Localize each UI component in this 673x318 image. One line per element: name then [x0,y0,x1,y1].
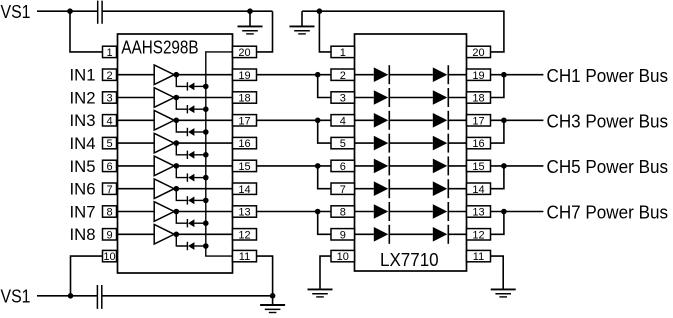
wire C2 to bottom ground node [102,295,272,297]
buffer amplifier ch3 (U1) [154,111,174,131]
pin 5 (U1) [103,137,117,150]
svg-text:3: 3 [106,93,112,105]
svg-text:4: 4 [106,115,112,127]
svg-text:IN8: IN8 [70,225,96,244]
svg-text:14: 14 [238,184,250,196]
pin 19 (U1) [233,69,257,82]
pin 17 (U2) [467,115,491,128]
wire branch down to U2 pin 5 [318,120,331,143]
junction buffer ch5 output [174,163,180,169]
ground (bottom left) [260,296,285,313]
wire buffer ch8 output to pin 12 [176,233,232,235]
wire U2 pin 2 to diode pair ch1 [355,74,374,76]
wire between diodes ch8 [389,233,433,235]
pin 4 (U2) [331,115,355,128]
wire buffer ch7 output down to clamp diode [176,212,187,224]
svg-text:2: 2 [340,70,346,82]
wire pin 7 to buffer ch6 input [118,188,155,190]
junction C1 / ground / pin 20 node [247,8,253,14]
junction buffer ch4 output [174,140,180,146]
diode D5B (U2, anode left) [433,156,449,175]
junction node U2 pins 8/9 [315,209,321,215]
wire diode ch5 anode to bus [194,177,205,179]
junction node U2 pins 4/5 [315,118,321,124]
svg-text:8: 8 [106,207,112,219]
diode D7B (U2, anode left) [433,202,449,221]
wire diode pair ch3 to pin 17 [448,119,466,121]
svg-text:2: 2 [106,70,112,82]
ground (U2 pin 10) [308,289,333,297]
svg-text:IN2: IN2 [70,88,96,107]
buffer amplifier ch5 (U1) [154,156,174,176]
wire U2 pin 3 to diode pair ch2 [355,97,374,99]
svg-text:IN6: IN6 [70,180,96,199]
wire U2 pin 8 to diode pair ch7 [355,211,374,213]
diode D4A (U2, anode left) [374,134,390,153]
svg-text:5: 5 [340,138,346,150]
svg-text:IN4: IN4 [70,134,96,153]
wire U2 pin 11 to ground [491,256,504,289]
svg-text:20: 20 [472,47,484,59]
wire between diodes ch5 [389,165,433,167]
capacitor C1 [98,1,102,24]
svg-text:16: 16 [472,138,484,150]
clamp diode ch8 (cathode left) [187,242,194,250]
wire U2 pin 17 to CH3 power bus [491,119,544,121]
wire buffer ch5 output to pin 15 [176,165,232,167]
wire U1 pin 15 to U2 pin 6 [257,165,332,167]
wire ground node up to pin 11 of U1 [257,256,273,296]
junction buffer ch3 output [174,118,180,124]
svg-text:9: 9 [106,229,112,241]
wire U1 pin 17 to U2 pin 4 [257,119,332,121]
svg-text:IN1: IN1 [70,66,96,85]
junction buffer ch8 output [174,232,180,238]
wire buffer ch8 output down to clamp diode [176,234,187,246]
pin 14 (U1) [233,183,257,196]
wire buffer ch3 output to pin 17 [176,119,232,121]
pin 1 (U2) [331,46,355,59]
wire between diodes ch1 [389,74,433,76]
svg-text:VS1: VS1 [1,286,31,307]
junction VS1 bottom rail / pin 10 tap [68,293,74,299]
svg-text:8: 8 [340,207,346,219]
wire diode ch7 anode to bus [194,222,205,224]
pin 19 (U2) [467,69,491,82]
wire buffer ch2 output down to clamp diode [176,98,187,110]
wire buffer ch3 output down to clamp diode [176,120,187,132]
pin 12 (U1) [233,229,257,242]
wire U2 pin 19 to CH1 power bus [491,74,544,76]
clamp diode ch1 (cathode left) [187,82,194,90]
pin 11 (U2) [467,250,491,263]
pin 15 (U2) [467,160,491,173]
wire diode pair ch1 to pin 19 [448,74,466,76]
pin 18 (U1) [233,92,257,105]
wire U2 pin 6 to diode pair ch5 [355,165,374,167]
wire between diodes ch7 [389,211,433,213]
wire diode ch1 anode to bus [194,85,205,87]
diode array IC U2 LX7710 body [355,34,467,271]
pin 8 (U2) [331,206,355,219]
pin 7 (U2) [331,183,355,196]
wire U1 pin 13 to U2 pin 8 [257,211,332,213]
wire diode pair ch2 to pin 18 [448,97,466,99]
diode D4B (U2, anode left) [433,134,449,153]
diode D7A (U2, anode left) [374,202,390,221]
wire U2 pin 7 to diode pair ch6 [355,188,374,190]
wire diode ch3 anode to bus [194,131,205,133]
wire pin 3 to buffer ch2 input [118,97,155,99]
clamp diode ch6 (cathode left) [187,196,194,204]
svg-text:VS1: VS1 [1,1,31,22]
svg-text:6: 6 [106,161,112,173]
svg-text:10: 10 [337,251,349,263]
wire U2 pin 15 to CH5 power bus [491,165,544,167]
wire pin 6 to buffer ch5 input [118,165,155,167]
svg-text:18: 18 [238,93,250,105]
svg-text:IN7: IN7 [70,202,96,221]
buffer amplifier ch8 (U1) [154,225,174,245]
pin 11 (U1) [233,250,257,263]
svg-text:1: 1 [106,47,112,59]
clamp diode ch5 (cathode left) [187,173,194,181]
junction bus / diode ch5 [203,175,209,181]
ground (top middle) [290,11,315,34]
buffer amplifier ch1 (U1) [154,65,174,85]
wire buffer ch6 output to pin 14 [176,188,232,190]
pin 1 (U1) [103,46,117,59]
clamp diode ch7 (cathode left) [187,219,194,227]
svg-text:6: 6 [340,161,346,173]
junction buffer ch6 output [174,186,180,192]
junction bus / diode ch7 [203,220,209,226]
svg-text:12: 12 [238,229,250,241]
wire diode pair ch6 to pin 14 [448,188,466,190]
junction buffer ch1 output [174,72,180,78]
pin 20 (U2) [467,46,491,59]
svg-text:12: 12 [472,229,484,241]
wire branch down to U2 pin 18 [491,75,504,98]
svg-text:CH1 Power Bus: CH1 Power Bus [547,65,669,86]
wire diode pair ch8 to pin 12 [448,233,466,235]
junction CH3 bus node [501,118,507,124]
wire diode ch8 anode to bus [194,245,205,247]
svg-text:18: 18 [472,93,484,105]
pin 16 (U2) [467,137,491,150]
wire U2 pin 9 to diode pair ch8 [355,233,374,235]
svg-text:15: 15 [472,161,484,173]
svg-text:10: 10 [103,251,115,263]
pin 6 (U1) [103,160,117,173]
junction C2 / ground / pin 11 node [270,293,276,299]
svg-text:13: 13 [472,207,484,219]
diode D8A (U2, anode left) [374,225,390,244]
wire U2 pin 13 to CH7 power bus [491,211,544,213]
junction bus / diode ch1 [203,84,209,90]
wire junction down to pin 1 of U2 [319,11,331,52]
svg-text:4: 4 [340,115,346,127]
diode D1A (U2, anode left) [374,65,390,84]
buffer amplifier ch7 (U1) [154,202,174,222]
pin 3 (U1) [103,92,117,105]
wire ground node down to pin 20 of U1 [257,11,273,52]
wire pin 5 to buffer ch4 input [118,142,155,144]
svg-text:LX7710: LX7710 [380,250,439,270]
svg-text:3: 3 [340,93,346,105]
capacitor C2 [97,285,101,309]
junction node U2 pins 6/7 [315,163,321,169]
svg-text:IN5: IN5 [70,157,96,176]
wire ground rail across to pin 20 of U2 [302,11,504,52]
wire branch down to U2 pin 7 [318,166,331,189]
svg-text:11: 11 [239,251,250,263]
wire buffer ch1 output to pin 19 [176,74,232,76]
clamp diode ch4 (cathode left) [187,151,194,159]
pin 10 (U1) [103,250,117,263]
junction bus / diode ch2 [203,106,209,112]
wire U2 pin 4 to diode pair ch3 [355,119,374,121]
wire diode pair ch5 to pin 15 [448,165,466,167]
wire diode ch6 anode to bus [194,199,205,201]
wire U2 pin 10 to ground [320,256,331,289]
junction buffer ch2 output [174,95,180,101]
pin 3 (U2) [331,92,355,105]
junction node U2 pins 2/3 [315,72,321,78]
pin 20 (U1) [233,46,257,59]
wire diode ch2 anode to bus [194,108,205,110]
pin 13 (U1) [233,206,257,219]
pin 2 (U2) [331,69,355,82]
wire VS1 to capacitor C1 [37,10,97,12]
wire pin 8 to buffer ch7 input [118,211,155,213]
junction VS1 rail / pin 1 tap [67,8,73,14]
pin 17 (U1) [233,115,257,128]
svg-text:19: 19 [472,70,484,82]
clamp diode ch3 (cathode left) [187,128,194,136]
wire buffer ch4 output to pin 16 [176,142,232,144]
wire buffer ch7 output to pin 13 [176,211,232,213]
wire buffer ch5 output down to clamp diode [176,166,187,178]
wire buffer ch6 output down to clamp diode [176,189,187,201]
junction bus / diode ch6 [203,198,209,204]
wire diode ch4 anode to bus [194,154,205,156]
pin 6 (U2) [331,160,355,173]
pin 10 (U2) [331,250,355,263]
wire junction down to pin 1 of U1 [70,11,103,52]
junction buffer ch7 output [174,209,180,215]
diode D8B (U2, anode left) [433,225,449,244]
svg-text:17: 17 [472,115,484,127]
diode D2A (U2, anode left) [374,88,390,107]
svg-text:CH5 Power Bus: CH5 Power Bus [547,156,669,177]
svg-text:1: 1 [340,47,346,59]
junction CH5 bus node [501,163,507,169]
pin 18 (U2) [467,92,491,105]
svg-text:14: 14 [472,184,484,196]
svg-text:9: 9 [340,229,346,241]
common bus pin 20 to pin 11 inside U1 [206,52,233,256]
diode D6A (U2, anode left) [374,179,390,198]
diode D1B (U2, anode left) [433,65,449,84]
svg-text:19: 19 [238,70,250,82]
wire branch down to U2 pin 3 [318,75,331,98]
wire diode pair ch4 to pin 16 [448,142,466,144]
wire pin 9 to buffer ch8 input [118,233,155,235]
pin 4 (U1) [103,115,117,128]
pin 2 (U1) [103,69,117,82]
wire buffer ch4 output down to clamp diode [176,143,187,155]
wire buffer ch1 output down to clamp diode [176,75,187,87]
wire buffer ch2 output to pin 18 [176,97,232,99]
pin 9 (U1) [103,229,117,242]
svg-text:5: 5 [106,138,112,150]
wire VS1 to capacitor C2 [37,295,97,297]
wire branch down to U2 pin 14 [491,166,504,189]
pin 16 (U1) [233,137,257,150]
wire between diodes ch3 [389,119,433,121]
buffer amplifier ch6 (U1) [154,179,174,199]
wire diode pair ch7 to pin 13 [448,211,466,213]
pin 12 (U2) [467,229,491,242]
junction CH7 bus node [501,209,507,215]
svg-text:CH3 Power Bus: CH3 Power Bus [547,111,669,132]
svg-text:7: 7 [340,184,346,196]
wire between diodes ch4 [389,142,433,144]
svg-text:7: 7 [106,184,112,196]
pin 13 (U2) [467,206,491,219]
svg-text:11: 11 [473,251,484,263]
wire branch down to U2 pin 9 [318,212,331,235]
svg-text:16: 16 [238,138,250,150]
ground (U2 pin 11) [491,289,516,297]
wire U1 pin 19 to U2 pin 2 [257,74,332,76]
svg-text:IN3: IN3 [70,111,96,130]
svg-text:13: 13 [238,207,250,219]
wire between diodes ch2 [389,97,433,99]
junction ground rail / U2 pin 1 tap [317,8,323,14]
svg-text:AAHS298B: AAHS298B [121,38,198,58]
wire branch down to U2 pin 12 [491,212,504,235]
pin 9 (U2) [331,229,355,242]
svg-text:20: 20 [238,47,250,59]
diode D6B (U2, anode left) [433,179,449,198]
wire junction up to pin 10 of U1 [71,256,103,296]
buffer amplifier ch4 (U1) [154,133,174,153]
pin 8 (U1) [103,206,117,219]
pin 7 (U1) [103,183,117,196]
junction bus / diode ch3 [203,129,209,135]
wire branch down to U2 pin 16 [491,120,504,143]
junction bus / diode ch4 [203,152,209,158]
wire pin 4 to buffer ch3 input [118,119,155,121]
svg-text:15: 15 [238,161,250,173]
pin 14 (U2) [467,183,491,196]
pin 15 (U1) [233,160,257,173]
wire between diodes ch6 [389,188,433,190]
wire U2 pin 5 to diode pair ch4 [355,142,374,144]
buffer IC U1 AAHS298B body [118,34,233,273]
clamp diode ch2 (cathode left) [187,105,194,113]
junction bus / diode ch8 [203,243,209,249]
diode D2B (U2, anode left) [433,88,449,107]
wire pin 2 to buffer ch1 input [118,74,155,76]
diode D3B (U2, anode left) [433,111,449,130]
wire C1 to top-left ground node [103,10,273,12]
ground (top left) [238,11,263,34]
svg-text:CH7 Power Bus: CH7 Power Bus [547,202,669,223]
diode D5A (U2, anode left) [374,156,390,175]
pin 5 (U2) [331,137,355,150]
diode D3A (U2, anode left) [374,111,390,130]
buffer amplifier ch2 (U1) [154,88,174,108]
svg-text:17: 17 [238,115,250,127]
junction CH1 bus node [501,72,507,78]
